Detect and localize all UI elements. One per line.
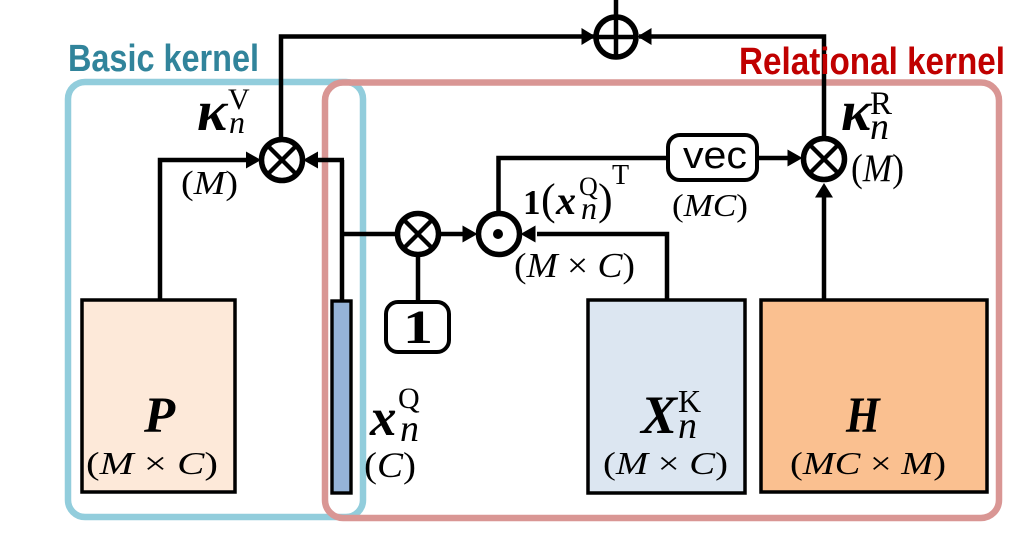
svg-text:x: x: [369, 389, 397, 447]
arrowhead into odot right: [521, 226, 536, 243]
otimes mid: [398, 214, 439, 255]
wire: adder output up: [614, 0, 619, 37]
vec box: [668, 135, 757, 180]
svg-text:H: H: [845, 388, 881, 444]
ones box: [386, 302, 449, 352]
svg-text:1: 1: [523, 183, 541, 222]
odot: [479, 214, 520, 255]
svg-text:(M × C): (M × C): [603, 445, 728, 481]
svg-text:κ: κ: [197, 80, 229, 143]
svg-text:(M × C): (M × C): [514, 246, 635, 285]
svg-text:n: n: [229, 104, 245, 140]
label xQ: [369, 382, 420, 450]
wire: XK up and into odot: [537, 234, 667, 300]
svg-text:1: 1: [403, 301, 433, 354]
svg-text:(: (: [541, 175, 556, 224]
svg-text:n: n: [678, 405, 697, 447]
arrowhead into otimes right left side: [788, 150, 803, 167]
matrix XK: [588, 300, 745, 493]
wire: xQ bar riser: [340, 160, 345, 302]
basic kernel group box: [68, 82, 363, 517]
wire: one box up into otimes mid: [416, 256, 421, 302]
wire: top left from kappaV to adder: [281, 37, 594, 142]
otimes basic: [262, 140, 303, 181]
svg-text:(MC): (MC): [672, 187, 748, 223]
label 1(xQn)T: [523, 160, 629, 226]
svg-text:κ: κ: [841, 80, 873, 143]
arrowhead into otimes right bottom: [815, 183, 833, 198]
svg-text:P: P: [143, 388, 176, 444]
svg-text:(C): (C): [364, 445, 416, 485]
svg-text:x: x: [555, 178, 576, 223]
wire: vec to otimes right: [757, 156, 789, 161]
svg-text:n: n: [400, 408, 419, 450]
wire: H up into otimes right: [822, 196, 827, 300]
svg-text:X: X: [639, 385, 679, 445]
relational kernel group box: [325, 83, 999, 519]
arrowhead into adder left: [582, 28, 596, 45]
wire: odot up to vec: [499, 158, 669, 213]
arrowhead into odot left: [463, 226, 478, 243]
matrix H: [761, 300, 987, 492]
wire: P up into otimes basic: [160, 160, 250, 300]
arrowhead into otimes basic right: [303, 152, 318, 169]
svg-text:(MC × M): (MC × M): [790, 445, 946, 481]
adder oplus: [596, 17, 636, 57]
svg-text:n: n: [870, 106, 889, 148]
svg-text:(M × C): (M × C): [86, 445, 218, 481]
label kappaV: [197, 80, 250, 143]
svg-text:Relational kernel: Relational kernel: [739, 41, 1005, 83]
svg-text:Basic kernel: Basic kernel: [68, 38, 259, 80]
wire: xQ branch to otimes mid: [342, 232, 397, 237]
label kappaR: [841, 80, 892, 148]
wire: xQ to otimes basic right: [317, 158, 344, 163]
svg-text:n: n: [581, 190, 597, 226]
svg-text:(M): (M): [181, 165, 238, 202]
vector xQ bar: [332, 301, 351, 493]
arrowhead into otimes basic left: [246, 152, 261, 169]
svg-text:vec: vec: [683, 135, 747, 177]
arrowhead into adder right: [638, 28, 652, 45]
otimes right: [804, 139, 845, 180]
wire: otimes mid to odot: [440, 232, 464, 237]
svg-text:T: T: [612, 160, 629, 191]
matrix P: [82, 300, 235, 492]
svg-text:(M): (M): [851, 147, 904, 190]
wire: top right from kappaR to adder: [639, 37, 824, 142]
svg-text:): ): [598, 175, 613, 224]
